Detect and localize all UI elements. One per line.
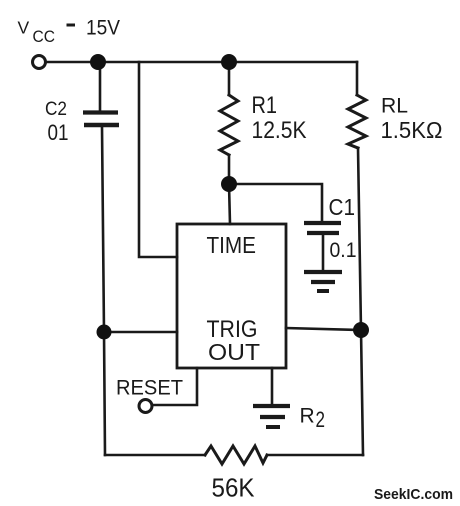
svg-text:0.1: 0.1 xyxy=(330,239,357,262)
svg-text:RL: RL xyxy=(381,94,408,118)
node junction top at C2 xyxy=(90,54,106,70)
RESET input terminal xyxy=(139,400,152,413)
wire R1 top lead xyxy=(228,62,231,95)
wire C1 ground stem xyxy=(322,235,325,270)
wire TIME pin (node to box top) xyxy=(229,184,230,224)
svg-text:CC: CC xyxy=(33,27,56,46)
wire C1 feed xyxy=(229,184,322,221)
wire left rail (C2 bottom to bottom rail) xyxy=(102,127,105,455)
resistor 56K xyxy=(205,446,267,464)
svg-text:15V: 15V xyxy=(86,17,120,40)
capacitor C2 xyxy=(83,113,119,126)
svg-text:2: 2 xyxy=(316,407,326,432)
svg-text:01: 01 xyxy=(48,120,69,145)
wire C2 stem top xyxy=(99,62,102,110)
svg-text:RESET: RESET xyxy=(116,376,183,400)
wire bottom rail right xyxy=(267,454,363,457)
wire OUT pin xyxy=(286,328,361,330)
wire TRIG pin xyxy=(104,331,177,334)
svg-text:12.5K: 12.5K xyxy=(252,117,307,144)
wire TIME feed from rail xyxy=(139,62,177,257)
svg-text:V: V xyxy=(18,18,30,38)
node junction OUT / right rail xyxy=(353,322,369,338)
wire bottom rail left xyxy=(105,454,205,457)
wire R2 ground pin xyxy=(271,368,274,404)
wire top rail Vcc xyxy=(46,61,357,64)
node junction TRIG / left rail xyxy=(97,325,112,340)
wire RL top lead xyxy=(356,62,359,95)
wire RESET pin xyxy=(153,368,197,405)
svg-text:R1: R1 xyxy=(252,92,278,119)
wire right rail (RL bottom to bottom rail) xyxy=(358,148,363,455)
resistor R1 xyxy=(220,95,238,155)
svg-text:C1: C1 xyxy=(329,194,356,220)
svg-text:1.5KΩ: 1.5KΩ xyxy=(381,117,443,143)
svg-text:OUT: OUT xyxy=(208,339,260,365)
node junction R1/C1/TIME xyxy=(221,176,237,192)
svg-text:SeekIC.com: SeekIC.com xyxy=(374,486,453,503)
node junction top at R1 xyxy=(221,54,237,70)
svg-text:R: R xyxy=(300,405,315,428)
Vcc input terminal xyxy=(33,56,46,69)
capacitor C1 xyxy=(304,223,341,233)
svg-text:56K: 56K xyxy=(212,473,256,503)
resistor RL xyxy=(348,95,366,148)
minus sign xyxy=(67,24,76,27)
wire R1 bottom lead xyxy=(228,155,231,184)
IC box timer U1 xyxy=(177,224,286,368)
ground (R2) xyxy=(253,406,290,427)
svg-text:TIME: TIME xyxy=(207,232,257,258)
ground (C1) xyxy=(304,272,342,291)
svg-text:C2: C2 xyxy=(45,98,67,120)
